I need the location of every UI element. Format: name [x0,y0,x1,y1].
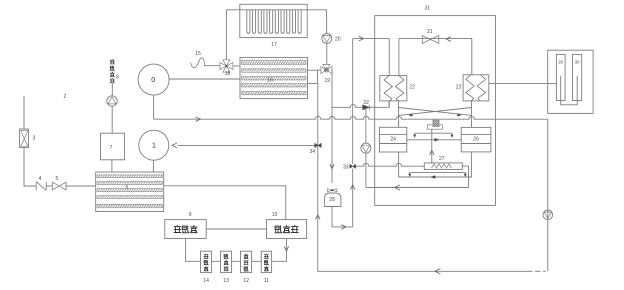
svg-text:11: 11 [264,278,269,284]
svg-text:13: 13 [223,278,229,284]
svg-text:21: 21 [427,29,433,35]
svg-text:14: 14 [203,278,209,284]
svg-text:15: 15 [195,51,201,57]
svg-text:19: 19 [325,78,331,84]
svg-text:12: 12 [243,278,249,284]
svg-text:31: 31 [425,6,431,12]
svg-text:27: 27 [439,156,445,162]
svg-text:3: 3 [33,136,36,142]
svg-text:1: 1 [152,143,156,150]
svg-text:29: 29 [558,60,563,65]
svg-text:32: 32 [363,100,369,106]
svg-text:26: 26 [473,137,479,143]
svg-text:17: 17 [271,42,277,48]
svg-text:24: 24 [390,137,396,143]
svg-text:16: 16 [267,78,273,84]
svg-text:30: 30 [575,60,580,65]
svg-text:18: 18 [225,71,231,77]
svg-text:23: 23 [456,84,462,90]
svg-text:6: 6 [126,185,129,191]
svg-text:0: 0 [151,77,155,84]
svg-text:10: 10 [272,212,278,218]
svg-text:4: 4 [39,176,42,182]
svg-text:2: 2 [64,94,67,100]
svg-text:8: 8 [116,74,119,80]
svg-text:7: 7 [110,145,113,151]
svg-text:5: 5 [56,176,59,182]
svg-text:33: 33 [343,165,349,171]
svg-text:28: 28 [329,197,335,203]
svg-text:34: 34 [310,149,316,155]
svg-text:20: 20 [335,37,341,43]
svg-text:22: 22 [409,84,415,90]
svg-text:9: 9 [189,212,192,218]
